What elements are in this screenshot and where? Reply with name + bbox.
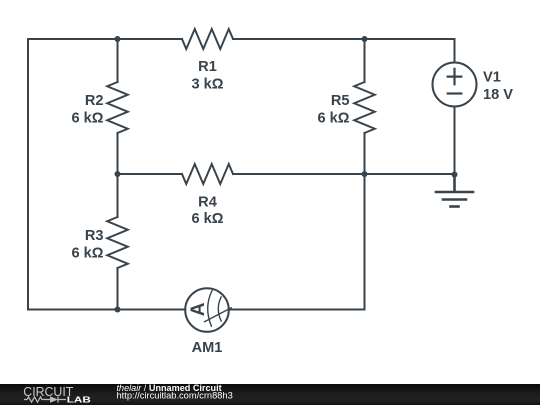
svg-text:R2: R2 (85, 93, 104, 109)
svg-text:3 kΩ: 3 kΩ (192, 76, 224, 92)
wire: R5 branch top lead (364, 39, 366, 82)
wire: R2 branch bottom lead (117, 133, 119, 174)
wire: R3 branch top lead (117, 174, 119, 217)
CircuitLab logo resistor-diode glyph (24, 396, 66, 402)
wire: R3 branch bottom lead (117, 268, 119, 310)
node: middle rail / R2-R3 junction (115, 171, 121, 177)
node: top rail / R5 junction (362, 36, 368, 42)
resistor R4 body (182, 164, 233, 184)
svg-text:A: A (188, 302, 209, 316)
svg-text:R4: R4 (198, 195, 218, 211)
svg-text:AM1: AM1 (192, 340, 223, 356)
wire: bottom rail left of AM1 (28, 309, 185, 311)
wire: middle rail right of R4 to ground junction (233, 173, 455, 175)
svg-text:R5: R5 (331, 93, 350, 109)
ground symbol (436, 175, 473, 207)
wire: top rail left of R1 (28, 38, 182, 40)
resistor R2 body (107, 82, 128, 133)
svg-text:http://circuitlab.com/crn88h3: http://circuitlab.com/crn88h3 (117, 391, 233, 401)
svg-text:6 kΩ: 6 kΩ (192, 211, 224, 227)
node: bottom rail / R3 junction (115, 307, 121, 313)
wire: top rail right of R1 to V1 top (233, 39, 455, 63)
node: top rail / R2 junction (115, 36, 121, 42)
wire: left vertical rail (27, 39, 29, 310)
svg-text:18 V: 18 V (483, 87, 513, 103)
voltage source V1 circle (433, 63, 477, 107)
node: ground junction (452, 172, 458, 178)
svg-text:LAB: LAB (67, 395, 91, 404)
wire: R5 branch bottom lead (364, 133, 366, 174)
svg-text:6 kΩ: 6 kΩ (72, 245, 104, 261)
footer bar (0, 384, 540, 405)
wire: middle rail left of R4 (118, 173, 183, 175)
resistor R1 body (182, 29, 233, 49)
node: middle rail / R5 junction (362, 171, 368, 177)
svg-text:R1: R1 (198, 59, 217, 75)
svg-text:6 kΩ: 6 kΩ (72, 110, 104, 126)
svg-text:R3: R3 (85, 228, 104, 244)
wire: bottom rail right of AM1 (229, 309, 365, 311)
wire: R2 branch top lead (117, 39, 119, 82)
V1 minus sign (448, 92, 462, 94)
ammeter AM1 circle (185, 288, 229, 332)
wire: right vertical from middle rail to bottom rail (364, 174, 366, 310)
resistor R3 body (107, 217, 128, 268)
svg-text:6 kΩ: 6 kΩ (318, 110, 350, 126)
svg-text:V1: V1 (483, 70, 501, 86)
V1 plus sign (448, 69, 462, 84)
resistor R5 body (354, 82, 375, 133)
AM1 needle arcs (205, 291, 232, 327)
wire: V1 bottom lead to ground junction (454, 107, 456, 175)
